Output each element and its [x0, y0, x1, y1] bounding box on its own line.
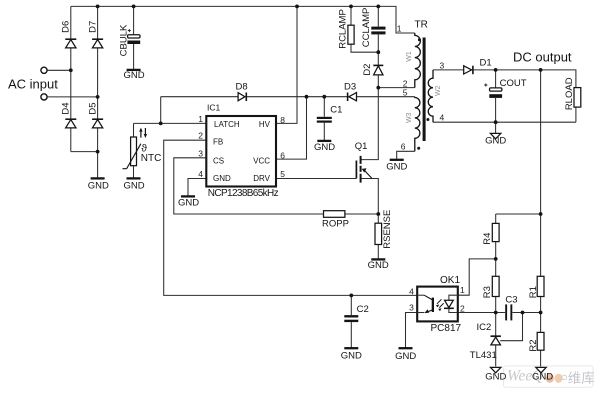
svg-text:D6: D6 [61, 21, 72, 33]
svg-text:C1: C1 [330, 105, 342, 116]
svg-text:W1: W1 [406, 51, 413, 62]
svg-text:D3: D3 [344, 82, 356, 93]
svg-text:GND: GND [123, 70, 144, 81]
svg-text:5: 5 [403, 87, 408, 97]
svg-text:R3: R3 [482, 286, 493, 298]
svg-text:GND: GND [123, 180, 144, 191]
svg-text:GND: GND [395, 351, 416, 362]
svg-text:4: 4 [198, 169, 203, 179]
svg-text:DC output: DC output [513, 50, 572, 65]
svg-text:6: 6 [280, 150, 285, 160]
svg-text:1: 1 [397, 24, 402, 34]
svg-text:Q1: Q1 [355, 141, 368, 152]
svg-text:2: 2 [460, 303, 465, 313]
svg-text:PC817: PC817 [431, 323, 462, 334]
svg-text:GND: GND [485, 372, 506, 383]
svg-text:4: 4 [409, 287, 414, 297]
svg-text:COUT: COUT [500, 78, 527, 89]
svg-text:VCC: VCC [253, 157, 270, 166]
svg-text:3: 3 [198, 148, 203, 158]
svg-text:DRV: DRV [253, 174, 270, 183]
svg-text:D5: D5 [87, 102, 98, 114]
svg-text:D8: D8 [236, 82, 248, 93]
svg-text:CBULK: CBULK [118, 24, 129, 56]
svg-text:R2: R2 [528, 339, 539, 351]
svg-text:FB: FB [213, 138, 223, 147]
svg-text:GND: GND [485, 136, 506, 147]
svg-text:8: 8 [280, 115, 285, 125]
svg-text:6: 6 [401, 142, 406, 152]
svg-text:D4: D4 [61, 102, 72, 114]
svg-text:1: 1 [460, 285, 465, 295]
svg-text:3: 3 [440, 60, 445, 70]
svg-text:RCLAMP: RCLAMP [338, 9, 349, 49]
svg-text:C3: C3 [505, 294, 517, 305]
svg-text:RSENSE: RSENSE [382, 210, 393, 249]
svg-text:D2: D2 [362, 64, 373, 76]
svg-text:GND: GND [532, 372, 553, 383]
svg-text:GND: GND [88, 180, 109, 191]
svg-text:TR: TR [415, 20, 428, 31]
svg-text:RLOAD: RLOAD [564, 77, 575, 110]
svg-text:IC2: IC2 [477, 322, 492, 333]
svg-text:4: 4 [440, 113, 445, 123]
svg-text:GND: GND [368, 260, 389, 271]
svg-text:NCP1238B65kHz: NCP1238B65kHz [208, 188, 279, 199]
svg-text:GND: GND [178, 197, 199, 208]
svg-text:R1: R1 [528, 286, 539, 298]
svg-text:ROPP: ROPP [322, 218, 349, 229]
svg-text:D7: D7 [87, 21, 98, 33]
svg-text:NTC: NTC [141, 153, 162, 164]
svg-text:IC1: IC1 [207, 102, 221, 112]
svg-text:CS: CS [213, 157, 224, 166]
svg-text:HV: HV [259, 120, 271, 129]
svg-text:C2: C2 [357, 304, 369, 315]
svg-text:CCLAMP: CCLAMP [361, 8, 372, 48]
svg-text:GND: GND [213, 174, 231, 183]
svg-text:W2: W2 [435, 85, 442, 96]
svg-text:3: 3 [409, 303, 414, 313]
svg-text:GND: GND [314, 142, 335, 153]
svg-text:AC input: AC input [8, 77, 58, 92]
svg-text:5: 5 [280, 169, 285, 179]
svg-text:LATCH: LATCH [214, 120, 240, 129]
svg-text:1: 1 [198, 114, 203, 124]
svg-text:GND: GND [341, 350, 362, 361]
svg-text:D1: D1 [480, 57, 492, 68]
svg-text:TL431: TL431 [470, 350, 497, 361]
svg-text:R4: R4 [482, 233, 493, 245]
svg-text:OK1: OK1 [440, 275, 460, 286]
svg-text:维库: 维库 [568, 371, 595, 386]
svg-text:W3: W3 [406, 112, 413, 123]
svg-text:2: 2 [198, 131, 203, 141]
svg-text:GND: GND [386, 161, 407, 172]
